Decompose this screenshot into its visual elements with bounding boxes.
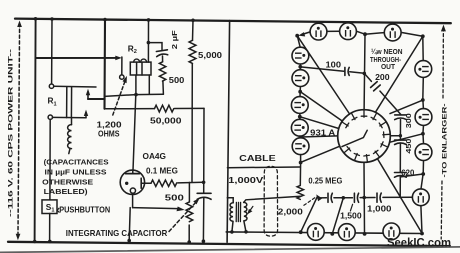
resistor R2 rheostat body (130, 59, 151, 75)
node bus x300 (299, 230, 303, 234)
transformer T1 core (235, 202, 237, 221)
wire R2 bottom bus (105, 94, 164, 96)
wire bottom ground rail (8, 242, 450, 246)
wire socket bottom lead to bus (363, 162, 366, 234)
node R2 wiper open terminal (120, 75, 124, 79)
wire R2 bottom-right lead (148, 75, 150, 94)
node left chain d3 (298, 90, 302, 94)
wire from x36 to R2 wiper at y58 (36, 57, 119, 59)
node pot bottom (187, 240, 191, 244)
capacitor 200 plates (371, 82, 378, 88)
capacitor 100 plates (344, 67, 346, 75)
svg-text:PUSHBUTTON: PUSHBUTTON (59, 205, 110, 215)
capacitor 2000 plates (327, 193, 329, 202)
wire mid section border vertical (227, 21, 230, 243)
neon lamp left L5 (292, 138, 309, 155)
tube OA4G starter bar (140, 178, 142, 188)
resistor 50,000 zigzag (155, 105, 174, 112)
radial to left dot y137 (301, 136, 338, 137)
wire primary bottom lead (232, 222, 233, 232)
wire 0.25meg top lead (299, 163, 301, 186)
wire top row seg T2-dot (356, 31, 365, 34)
capacitor 300 plates (395, 114, 407, 116)
node switch lower contact (48, 115, 52, 119)
transformer T1 secondary coil (244, 202, 247, 220)
svg-text:2,000: 2,000 (278, 206, 303, 216)
tube OA4G bottom electrode circle (130, 188, 135, 193)
node top rail junction x148 (147, 18, 151, 22)
node right chain y134 (421, 132, 425, 136)
resistor 0.25 MEG zigzag (297, 185, 303, 199)
svg-text:500: 500 (165, 193, 185, 203)
svg-text:OA4G: OA4G (143, 151, 167, 161)
wire 50000 right lead (175, 107, 205, 109)
neon lamp bottom B1 (307, 224, 324, 241)
potentiometer 500 zigzag (186, 202, 193, 222)
wire right chain verticals (422, 36, 424, 60)
svg-text:450: 450 (404, 139, 413, 154)
node transformer bottom left (230, 230, 234, 234)
wire top supply rail (15, 19, 451, 24)
svg-text:OTHERWISE: OTHERWISE (42, 177, 93, 186)
wire heavy elbow to arrow (88, 98, 105, 100)
svg-text:300: 300 (404, 113, 413, 128)
neon lamp bottom B3 (383, 223, 400, 240)
neon lamp left L3 (291, 97, 308, 114)
wire heavy branch x105 (103, 20, 106, 109)
capacitor 450 plates (395, 139, 407, 141)
node transformer bottom right (244, 230, 248, 234)
svg-text:(CAPACITANCES: (CAPACITANCES (44, 157, 109, 166)
wire HV secondary to 0.25meg (244, 196, 301, 202)
svg-text:OUT: OUT (381, 62, 395, 71)
node left chain d5 (299, 135, 303, 139)
svg-text:0.25 MEG: 0.25 MEG (308, 176, 342, 186)
transformer T1 primary coil (230, 203, 233, 221)
node bus corner x422 (420, 232, 424, 236)
node bus x364 (363, 232, 367, 236)
wire return through cable (227, 166, 300, 169)
wire caps row with selector arrow (320, 197, 327, 199)
power unit dashed boundary line with arrows (18, 24, 20, 234)
node socket caps row junction (362, 196, 366, 200)
label pointer pushbutton (57, 208, 59, 212)
svg-text:620: 620 (401, 168, 414, 178)
resistor 0.1 MEG zigzag (151, 180, 177, 186)
neon lamp top T1 (310, 23, 327, 40)
inductor 1200 ohm winding (68, 118, 72, 154)
node top row mid (363, 32, 367, 36)
wire top row seg T3-corner (401, 32, 423, 36)
node top right corner (421, 34, 425, 38)
neon lamp right R3 (415, 144, 432, 161)
component S1 pushbutton box (42, 200, 57, 214)
wire selector diagonal from bus (301, 197, 318, 232)
wire 500 to bottom bus (162, 81, 165, 94)
wire 200 cap branch lower (380, 91, 401, 114)
label pointer 1200 ohms dashed (113, 80, 126, 116)
neon lamp top T3 (384, 24, 401, 41)
node left chain top (295, 34, 299, 38)
wire cathode down to rail (129, 208, 130, 241)
wire primary top lead (227, 198, 233, 203)
svg-text:CABLE: CABLE (239, 153, 276, 163)
potentiometer 500 top lead (188, 182, 190, 202)
wire tap arrow up (85, 113, 87, 118)
radial to left dot y92 (300, 92, 342, 121)
node rail x35 (33, 240, 37, 244)
wire R2 wiper lead (121, 57, 123, 75)
node top rail junction x52 (50, 17, 54, 21)
wire R2 junction down to tube plate (133, 95, 136, 171)
wire contact to arrow tap (53, 116, 87, 118)
svg-text:INTEGRATING CAPACITOR: INTEGRATING CAPACITOR (66, 228, 168, 238)
node row junction x343 (342, 196, 346, 200)
border bottom gray line (0, 247, 460, 253)
capacitor integrating plates (197, 192, 211, 194)
neon lamp right R1 (415, 61, 432, 78)
node right chain y174 (421, 172, 425, 176)
wire row seg2 (334, 197, 353, 199)
svg-text:IN µµF UNLESS: IN µµF UNLESS (45, 167, 107, 176)
wire left chain verticals (297, 36, 300, 48)
resistor 5000 branch (192, 20, 195, 40)
wire to 50000 resistor (105, 108, 155, 110)
wire socket right lead to cap column (390, 135, 400, 137)
wire R2 top lead (147, 20, 149, 62)
svg-text:0.1 MEG: 0.1 MEG (146, 165, 178, 175)
node cap column mid (399, 134, 402, 137)
node 100 cap junction (363, 72, 367, 76)
node rail x129 (127, 239, 131, 243)
node left chain d6 (299, 161, 303, 165)
wire top row seg dot-T3 (365, 33, 384, 35)
capacitor 1500 plates (353, 193, 355, 202)
wire 0.1meg right lead (178, 181, 204, 184)
node left chain d4 (298, 115, 302, 119)
neon lamp left L4 (291, 119, 308, 136)
dashed line to enlarger top (441, 28, 443, 239)
capacitor 1000 plates (376, 193, 378, 202)
svg-text:200: 200 (375, 72, 390, 82)
tube socket 931A pins (341, 110, 390, 161)
label pointer 2000 dashed (304, 197, 317, 206)
svg-text:931 A: 931 A (310, 127, 335, 137)
wire 200 cap branch upper (364, 73, 371, 81)
label pointer integrating capacitor dashed (169, 201, 198, 232)
svg-text:OHMS: OHMS (98, 128, 120, 138)
node right chain y100 (421, 98, 425, 102)
wire row seg3 (360, 197, 375, 199)
cable dashed outline (264, 166, 278, 236)
node bus x332 (330, 232, 334, 236)
wire socket diagonal to bus corner (377, 159, 422, 234)
wire 50000 corner down to junction (203, 108, 205, 193)
wire integrating cap to rail (202, 198, 204, 242)
node R2 cap branch junction (147, 41, 151, 45)
svg-text:SeekIC.com: SeekIC.com (387, 237, 451, 249)
resistor R1 element (two bars) (66, 87, 68, 118)
neon lamp top T2 (340, 23, 357, 40)
tube OA4G plate bar (126, 173, 140, 175)
radial to right dot y134 (390, 134, 423, 142)
resistor 5,000 zigzag (189, 40, 196, 63)
label pointer 1500 tick (350, 204, 352, 211)
wire pot bottom to rail (188, 225, 190, 242)
neon lamp right R4 (412, 189, 429, 206)
wire R2 bottom-left lead (135, 75, 137, 94)
resistor 500 upper zigzag (159, 62, 165, 81)
wire capacitor column vertical (399, 120, 401, 141)
node top rail junction x105 (103, 18, 107, 22)
svg-text:--116 V. 60 CPS POWER UNIT--: --116 V. 60 CPS POWER UNIT-- (8, 49, 15, 217)
tube socket 931A index pointer (342, 130, 367, 146)
wire diagonal bus to row x343 (332, 198, 343, 234)
radial to 0.25meg dot (301, 146, 340, 162)
svg-text:1,000: 1,000 (367, 203, 392, 213)
wire contact to R1 top (54, 85, 96, 88)
radial to left dot y117 (300, 117, 339, 129)
wire top row arrow link (302, 32, 311, 35)
wire switch to S1 (49, 119, 51, 199)
wire row seg4 to neon (383, 196, 412, 198)
wire tube cathode down (132, 193, 134, 207)
wire S1 to bottom rail (49, 214, 51, 242)
radial to left chain top dot (297, 36, 349, 114)
neon lamp bottom B2 (338, 224, 355, 241)
wire 5000 lower lead down to 0.1meg wire (191, 64, 193, 183)
wire switch upper branch x52 (51, 19, 53, 84)
neon lamp right R2 (415, 109, 432, 126)
tube OA4G cathode dot (125, 182, 128, 185)
tube OA4G envelope (120, 170, 144, 194)
node R2 bottom junction (134, 93, 138, 97)
wire right dot y174 link to column (401, 174, 424, 177)
wire secondary bottom lead (244, 221, 246, 232)
svg-text:500: 500 (169, 75, 185, 85)
svg-text:1,500: 1,500 (340, 211, 362, 221)
node integrating cap junction (202, 181, 206, 185)
svg-text:-TO ENLARGER-: -TO ENLARGER- (442, 104, 449, 178)
node rail x50 (48, 240, 52, 244)
wire top row seg T1-T2 (327, 30, 340, 32)
svg-text:50,000: 50,000 (150, 116, 182, 126)
capacitor 2uF (156, 50, 167, 62)
capacitor 620 plates (395, 172, 407, 174)
node top rail junction x36 (34, 17, 38, 21)
label pointer 1000V arrow (249, 206, 253, 212)
wire left rail x36 down (35, 19, 36, 242)
wire socket top lead (363, 34, 366, 110)
radial to right dot y100 (390, 100, 423, 113)
node left chain d2 (298, 65, 302, 69)
tube socket 931A outline (338, 110, 391, 163)
svg-text:1,000V: 1,000V (228, 175, 264, 185)
wire 100 cap branch (300, 67, 344, 71)
neon lamp left L1 (292, 47, 309, 64)
wire bottom bus B1 (226, 232, 422, 234)
wire cathode to pot wiper (133, 208, 178, 209)
svg-text:100: 100 (326, 60, 342, 70)
radial diagonal corner to rim (375, 36, 422, 112)
node integrating bottom (202, 239, 206, 243)
svg-text:5,000: 5,000 (198, 50, 222, 60)
wire cap branch horizontal (148, 43, 162, 50)
node top rail junction x193 (191, 19, 195, 23)
neon lamp left L2 (292, 70, 309, 87)
node switch upper contact (49, 84, 53, 88)
svg-text:2 µF: 2 µF (170, 30, 179, 50)
svg-text:LABELED): LABELED) (44, 187, 89, 196)
